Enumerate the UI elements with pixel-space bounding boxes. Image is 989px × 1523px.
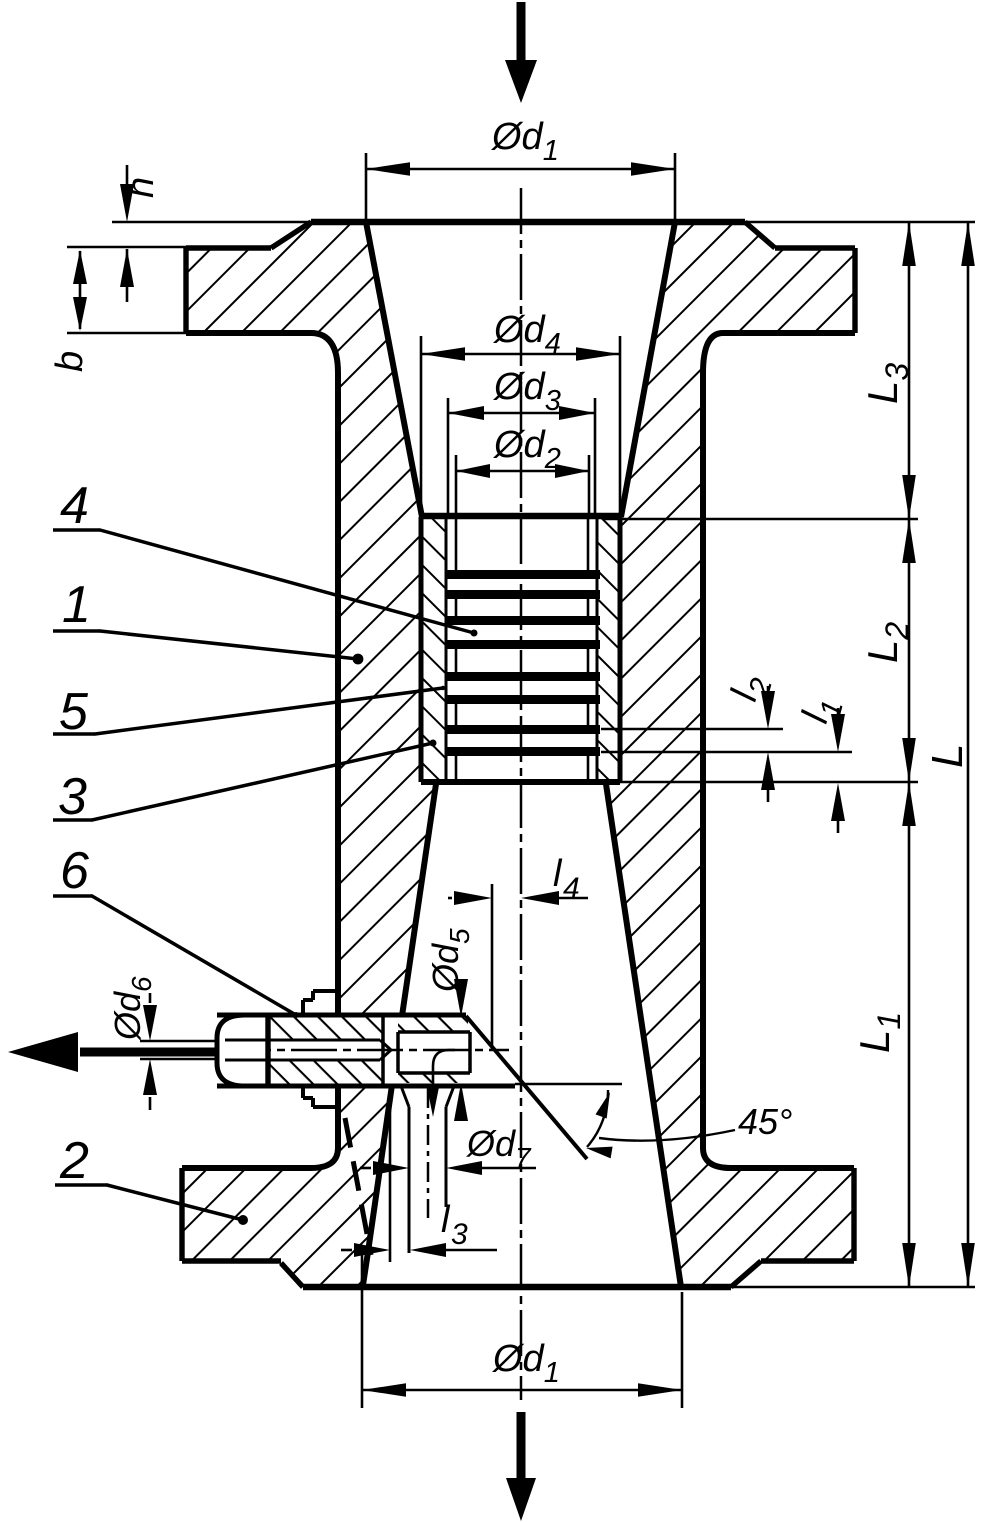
svg-text:6: 6 <box>60 842 89 900</box>
svg-text:3: 3 <box>58 768 87 826</box>
svg-text:3: 3 <box>451 1218 468 1251</box>
svg-text:45°: 45° <box>738 1101 792 1142</box>
svg-text:4: 4 <box>563 872 580 905</box>
svg-text:b: b <box>49 351 91 372</box>
svg-text:1: 1 <box>62 576 91 634</box>
svg-text:L: L <box>923 744 972 768</box>
svg-text:4: 4 <box>60 477 89 535</box>
svg-text:2: 2 <box>59 1132 89 1190</box>
